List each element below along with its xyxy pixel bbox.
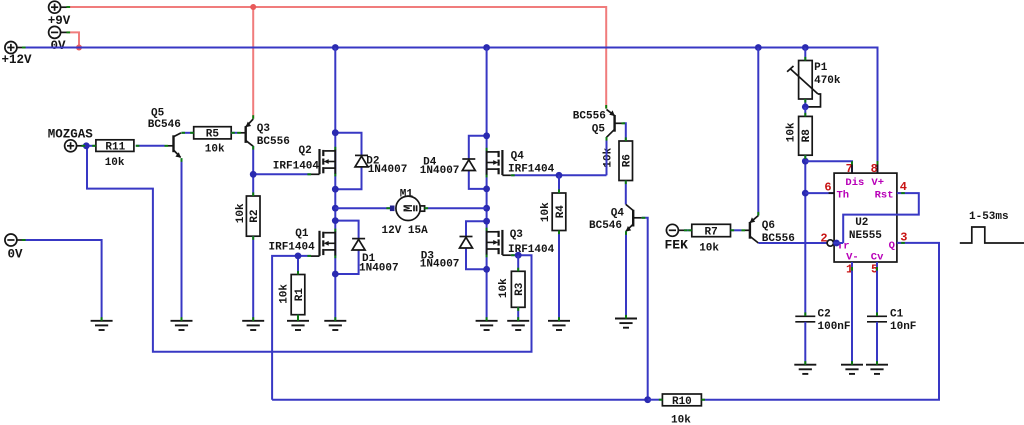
svg-text:R1: R1 — [294, 288, 306, 302]
node right rail D4 top — [483, 132, 490, 139]
wire MOZGAS net down and to Q3 gate — [87, 146, 532, 352]
wire pin7 route — [805, 161, 852, 173]
ground R1 — [287, 321, 309, 330]
pin-wire joint marks (green) — [22, 7, 905, 400]
wire FEK to R7 — [684, 229, 692, 231]
resistor R3 10k — [498, 271, 526, 307]
node right rail motor — [483, 205, 490, 212]
connector 0V bottom — [5, 234, 23, 261]
wire R2 to ground — [252, 236, 254, 321]
svg-text:10k: 10k — [786, 122, 798, 142]
svg-text:R4: R4 — [555, 205, 567, 219]
ground 0V — [91, 321, 113, 330]
wire right bridge rail — [486, 48, 488, 321]
wire bottom long to R10 — [272, 399, 648, 401]
transistor Q5 BC556 (right, mirrored) — [573, 109, 623, 137]
svg-text:FEK: FEK — [665, 237, 689, 252]
svg-text:Q5: Q5 — [151, 107, 165, 119]
svg-text:R5: R5 — [206, 129, 220, 141]
pin 2 bubble — [827, 240, 833, 246]
IC pin stubs — [829, 164, 902, 268]
svg-text:4: 4 — [900, 180, 907, 194]
wire motor left — [335, 207, 390, 209]
svg-text:100nF: 100nF — [818, 321, 851, 333]
svg-text:10nF: 10nF — [890, 321, 916, 333]
svg-text:R6: R6 — [622, 154, 634, 167]
ground Q5 emitter — [171, 321, 193, 330]
svg-text:10k: 10k — [671, 414, 691, 425]
svg-text:10k: 10k — [699, 242, 719, 254]
wire R7 to Q6 base — [731, 229, 742, 231]
svg-text:U2: U2 — [855, 217, 868, 229]
wire pin3 Q output — [701, 243, 939, 400]
svg-text:10k: 10k — [235, 203, 247, 223]
svg-text:Dis: Dis — [845, 177, 864, 189]
svg-text:IRF1404: IRF1404 — [269, 241, 316, 253]
diode D2 1N4007 — [335, 133, 407, 190]
resistor R8 10k — [786, 116, 814, 155]
svg-text:R11: R11 — [105, 142, 125, 154]
node Q1 gate junction — [295, 253, 302, 260]
svg-text:470k: 470k — [814, 75, 841, 87]
wire R4 to ground — [558, 231, 560, 321]
svg-text:R7: R7 — [704, 226, 717, 238]
waveform annotation 1-53ms — [960, 211, 1024, 243]
wire 0V to +12V rail red — [67, 32, 80, 47]
transistor Q3 IRF1404 (mirrored) — [487, 228, 511, 258]
wire R1 top — [297, 256, 299, 275]
svg-text:+9V: +9V — [48, 14, 71, 28]
node right rail D4 bottom — [483, 186, 490, 193]
wire P1 to R8 — [804, 107, 806, 117]
svg-text:R2: R2 — [249, 209, 261, 222]
node R8 bottom junction — [802, 158, 809, 165]
resistor R7 10k — [692, 224, 731, 254]
ground R4 — [548, 321, 570, 330]
transistor Q3 BC556 — [237, 119, 290, 148]
wire Q4 base down to R10 — [642, 218, 648, 400]
wire Tr route from Q6 — [758, 242, 827, 244]
svg-text:R10: R10 — [672, 396, 692, 408]
resistor R6 10k — [603, 141, 634, 181]
svg-text:Q: Q — [889, 240, 895, 252]
node left rail D1 bottom — [332, 271, 339, 278]
svg-text:10k: 10k — [205, 143, 225, 155]
svg-text:Rst: Rst — [875, 189, 894, 201]
svg-text:Th: Th — [837, 189, 850, 201]
wire Q6 emitter from +12V rail — [757, 48, 759, 216]
wire +12V rail — [22, 48, 878, 174]
transistor Q4 BC546 (mirrored) — [589, 204, 642, 231]
wire C2 to ground — [804, 322, 806, 365]
svg-text:10k: 10k — [603, 147, 615, 167]
resistor R2 10k — [235, 196, 261, 236]
wire Q4 emitter to ground — [625, 231, 627, 318]
node Th junction — [802, 190, 809, 197]
svg-text:BC546: BC546 — [589, 220, 622, 232]
node MOZGAS junction — [83, 142, 90, 149]
wire Q2 gate — [253, 173, 311, 175]
ground C1 — [866, 365, 888, 374]
transistor Q1 IRF1404 — [311, 229, 335, 259]
svg-text:Q2: Q2 — [299, 145, 312, 157]
svg-text:BC556: BC556 — [257, 136, 290, 148]
node R4 top junction — [556, 172, 563, 179]
svg-text:IRF1404: IRF1404 — [508, 163, 555, 175]
wire Q4 mosfet gate row to R4 and Q5 collector — [511, 174, 606, 176]
node right rail D3 bottom — [483, 266, 490, 273]
node rail-P1 — [802, 44, 809, 51]
svg-text:P1: P1 — [814, 62, 828, 74]
wire Q3 collector down to R2 — [252, 146, 254, 196]
svg-text:V+: V+ — [871, 177, 884, 189]
svg-text:+12V: +12V — [2, 53, 33, 67]
wire R11 to Q5 base — [136, 145, 165, 147]
svg-text:10k: 10k — [105, 157, 125, 169]
wire +9V red top — [67, 7, 607, 109]
wire Th stub — [805, 192, 834, 194]
svg-text:R8: R8 — [801, 129, 813, 143]
wire R3 top — [517, 255, 519, 271]
svg-text:1N4007: 1N4007 — [420, 165, 460, 177]
node rail-right bridge — [483, 44, 490, 51]
transistor Q4 IRF1404 (mirrored) — [487, 148, 511, 178]
svg-text:Q4: Q4 — [611, 207, 625, 219]
transistor Q6 BC556 — [741, 216, 794, 245]
wire R6 bottom to Q4 collector — [625, 181, 627, 205]
ground R2 — [242, 321, 264, 330]
node right rail D3 top — [483, 218, 490, 225]
wire pin5 to C1 — [876, 262, 878, 316]
node R10 left junction — [644, 396, 651, 403]
wire R10 left lead — [648, 399, 663, 401]
wire Tr to Rst vertical — [834, 242, 844, 244]
svg-text:BC556: BC556 — [573, 110, 606, 122]
svg-text:M1: M1 — [400, 188, 414, 200]
svg-text:Q6: Q6 — [762, 220, 775, 232]
node red junction on rail — [76, 45, 82, 51]
svg-text:C1: C1 — [890, 308, 904, 320]
transistor Q2 IRF1404 — [311, 147, 335, 177]
svg-text:NE555: NE555 — [849, 230, 882, 242]
ground R3 — [507, 321, 529, 330]
wire left bridge rail — [334, 48, 336, 321]
svg-text:0V: 0V — [51, 39, 67, 53]
resistor R10 10k — [662, 394, 701, 425]
wire Q5 collector to R5 — [181, 132, 193, 134]
svg-text:1N4007: 1N4007 — [420, 259, 460, 271]
node rail-Q6 — [755, 44, 762, 51]
wire Q5 base to R6 — [623, 123, 626, 141]
svg-text:10k: 10k — [498, 278, 510, 298]
svg-text:1-53ms: 1-53ms — [969, 211, 1009, 223]
svg-text:12V 15A: 12V 15A — [382, 225, 429, 237]
wire Q5 emitter to ground — [181, 158, 183, 321]
ground Q4 emitter — [615, 319, 637, 328]
wire red branch to Q3 — [252, 7, 254, 119]
svg-text:Q5: Q5 — [592, 123, 606, 135]
diode D4 1N4007 — [420, 136, 487, 189]
capacitor C1 10nF — [867, 308, 916, 333]
svg-text:BC546: BC546 — [148, 119, 181, 131]
node P1 bottom junction — [802, 104, 809, 111]
ground left rail — [324, 321, 346, 330]
svg-text:R3: R3 — [514, 282, 526, 296]
svg-text:10k: 10k — [279, 284, 291, 304]
node Q2 gate junction — [250, 171, 257, 178]
wire Q1 gate row — [272, 256, 311, 400]
connector +9V — [48, 1, 71, 28]
svg-text:10k: 10k — [540, 202, 552, 222]
wire pin1 to ground — [851, 262, 853, 365]
resistor R5 10k — [194, 127, 232, 156]
connector +12V — [2, 42, 33, 68]
node left rail D2 bottom — [332, 186, 339, 193]
svg-text:Q1: Q1 — [295, 228, 309, 240]
node left rail D2 top — [332, 129, 339, 136]
svg-text:0V: 0V — [8, 247, 24, 261]
svg-text:C2: C2 — [818, 308, 831, 320]
node Q3 gate junction — [515, 252, 522, 259]
capacitor C2 100nF — [795, 308, 850, 333]
wire R4 top — [558, 175, 560, 193]
wire R8 down to Th and C2 — [804, 155, 806, 316]
resistor R11 10k — [96, 140, 134, 169]
wire 0V bottom to ground — [22, 240, 102, 321]
resistor R4 10k — [540, 193, 567, 231]
diode D3 1N4007 — [420, 221, 487, 270]
ground right rail — [476, 321, 498, 330]
connector FEK — [665, 224, 689, 252]
node left rail D1 top — [332, 217, 339, 224]
connector MOZGAS — [48, 128, 94, 152]
wire R3 to ground — [517, 307, 519, 321]
resistor R1 10k — [279, 275, 306, 315]
IC U2 NE555 — [820, 162, 907, 276]
wire C1 to ground — [876, 322, 878, 365]
wire R1 to ground — [297, 315, 299, 321]
wire Q5 collector down to gate row — [606, 137, 608, 175]
svg-text:IRF1404: IRF1404 — [273, 160, 320, 172]
wire Rst route — [843, 193, 919, 243]
wire Q3 mosfet gate to R3 — [511, 254, 518, 256]
svg-text:MOZGAS: MOZGAS — [48, 128, 94, 142]
svg-text:Q3: Q3 — [510, 229, 524, 241]
svg-text:Q3: Q3 — [257, 123, 271, 135]
node red junction top — [250, 4, 256, 10]
svg-text:1N4007: 1N4007 — [368, 164, 408, 176]
wire R5 to Q3 base — [231, 132, 237, 134]
transistor Q5 BC546 — [148, 107, 181, 158]
node Tr junction — [833, 240, 840, 247]
wire motor right — [424, 207, 487, 209]
connector 0V top — [49, 26, 67, 53]
diode D1 1N4007 — [335, 221, 398, 275]
node left rail motor — [332, 205, 339, 212]
motor M1 — [382, 188, 429, 237]
svg-text:1N4007: 1N4007 — [359, 263, 399, 275]
potentiometer P1 470k — [787, 48, 841, 107]
node rail-left bridge — [332, 44, 339, 51]
wire MOZGAS to R11 — [82, 145, 96, 147]
ground C2 — [794, 365, 816, 374]
ground pin1 — [841, 365, 863, 374]
svg-text:Q4: Q4 — [511, 150, 525, 162]
